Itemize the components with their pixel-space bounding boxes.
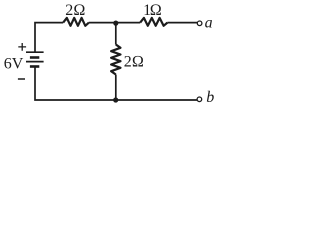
svg-text:b: b <box>206 89 214 106</box>
wire R3 down to node B <box>115 75 117 101</box>
wire node A down to R3 <box>115 23 117 45</box>
terminal b open circle <box>197 97 202 102</box>
plus sign of source <box>18 43 26 51</box>
svg-text:2Ω: 2Ω <box>124 53 144 70</box>
wire node B to terminal b <box>116 99 197 101</box>
wire top-left from battery positive up and right to R1 <box>35 23 63 53</box>
node A junction dot top <box>113 21 118 26</box>
battery V1 long plate 2 <box>26 61 44 63</box>
minus sign of source <box>18 78 25 80</box>
resistor R1 2ohm top-left zigzag <box>63 18 89 26</box>
resistor R2 1ohm zigzag <box>140 18 167 26</box>
svg-text:a: a <box>205 15 213 32</box>
terminal a open circle <box>197 21 202 26</box>
wire battery negative down and bottom wire right to node B <box>35 67 116 101</box>
svg-text:2Ω: 2Ω <box>65 2 85 19</box>
node B junction dot bottom <box>113 97 118 102</box>
wire R2 to terminal a <box>167 22 197 24</box>
battery V1 short plate 2 <box>30 65 39 68</box>
battery V1 short plate 1 <box>30 56 39 59</box>
svg-text:1Ω: 1Ω <box>143 2 162 19</box>
wire between R1 and node A <box>89 22 140 24</box>
resistor R3 2ohm middle vertical zigzag <box>111 45 120 75</box>
svg-text:6V: 6V <box>4 56 24 73</box>
battery V1 long plate 1 <box>26 51 44 53</box>
